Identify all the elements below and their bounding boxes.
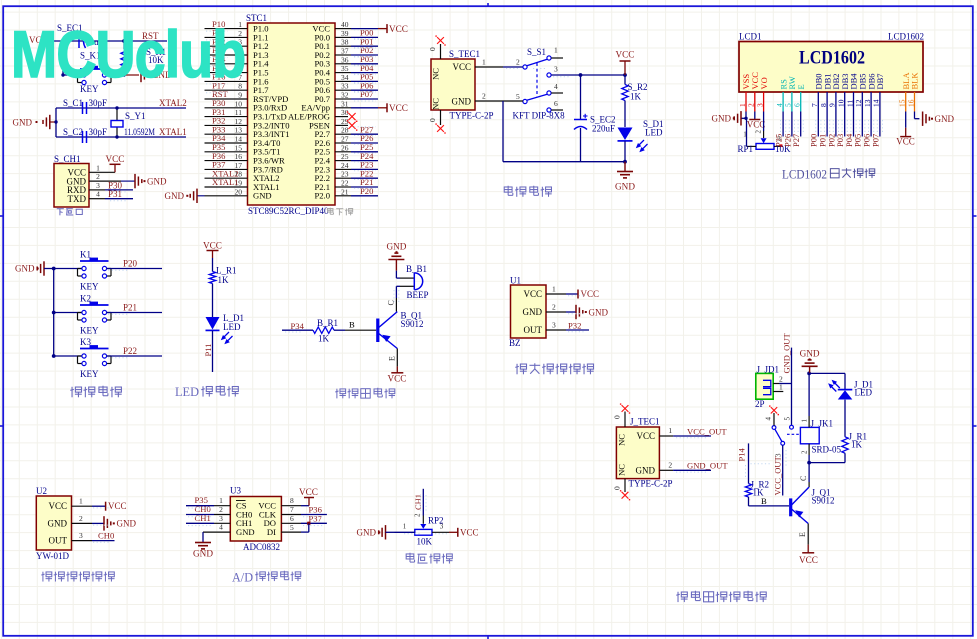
power port VCC (LED) [203,241,222,258]
svg-text:L_R1: L_R1 [216,266,237,276]
pin 1 U2 to VCC [72,497,127,512]
svg-text:GND: GND [386,241,406,251]
svg-text:28: 28 [341,126,349,135]
svg-text:A/D: A/D [232,570,253,585]
connector S_CH1 download port [54,154,89,207]
svg-text:2: 2 [755,130,763,134]
svg-text:1K: 1K [318,334,330,344]
pin 37 STC1 P0.2 [314,45,378,60]
pin 1 U1 to VCC [546,285,599,300]
pin 32 STC1 P0.7 [314,89,378,104]
pin 28 STC1 P2.7 [314,124,378,139]
svg-text:GND: GND [193,549,213,559]
svg-text:2: 2 [414,513,422,517]
pin 11 LCD1 DB4 [845,73,858,112]
wire LCD pin 5 net P26 [782,112,792,148]
svg-text:VCC: VCC [203,241,222,251]
wire LCD pin 6 net P27 [791,112,801,148]
node junction right [122,39,126,43]
pin 33 STC1 P0.6 [314,80,378,95]
svg-text:P20: P20 [360,186,373,196]
svg-text:K1: K1 [80,250,91,260]
svg-text:STC89C52RC_DIP40: STC89C52RC_DIP40 [248,206,329,216]
svg-text:3: 3 [554,65,558,74]
pin 6 STC1 P1.5 [205,63,269,78]
pin 8 U3 to VCC [281,496,309,506]
ground (relay) [800,349,820,374]
wire LCD pin 4 net P25 [774,112,784,148]
svg-text:3: 3 [552,321,556,330]
wire relay to collector [799,463,809,487]
svg-text:5: 5 [290,523,294,532]
svg-text:0: 0 [613,415,622,419]
ground (reset) [124,66,172,82]
title LED circuit [175,384,239,399]
power port VCC (pin 31 EA/Vpp) [378,103,408,113]
svg-text:30pF: 30pF [89,98,108,108]
pin 10 LCD1 DB3 [837,73,850,111]
ground (keys) [15,261,54,275]
svg-text:1K: 1K [851,440,863,450]
pin 11 STC1 P3.1/TxD [205,107,287,122]
svg-text:33: 33 [341,82,349,91]
wire emitter to VCC (relay) [798,524,808,545]
pin 13 LCD1 DB6 [863,73,876,111]
pin 23 STC1 P2.2 [314,168,378,183]
pin 2 J_JD1 wire to GND_OUT [773,374,791,383]
svg-text:2: 2 [552,303,556,312]
svg-text:TYPE-C-2P: TYPE-C-2P [629,479,673,489]
pin 0 J_TEC1 bottom no-connect [613,479,631,501]
svg-text:VCC: VCC [460,527,479,537]
no connect pin 30 [347,111,358,122]
svg-text:CH1: CH1 [195,513,211,523]
svg-text:B_R1: B_R1 [317,318,338,328]
svg-text:KEY: KEY [80,326,99,336]
ground (pin 20) [165,189,205,203]
label MCU chinese [328,208,353,216]
wire XTAL2 [56,107,186,109]
title LCD display module [782,168,875,182]
svg-text:10: 10 [837,99,846,107]
svg-text:S_Y1: S_Y1 [125,111,146,121]
pin 16 LCD1 BLK [906,72,919,112]
wire buzzer top [396,271,400,278]
title relay control circuit [676,591,766,602]
svg-text:22: 22 [341,179,349,188]
pin 2 LCD1 VCC [747,72,760,112]
pin 5 STC1 P1.4 [205,54,270,69]
IC U1 infrared module [509,276,546,349]
svg-text:GND_OUT: GND_OUT [687,461,728,471]
svg-text:3: 3 [440,523,444,531]
svg-text:XTAL1: XTAL1 [212,177,239,187]
svg-text:ADC0832: ADC0832 [243,542,280,552]
pin 9 LCD1 DB2 [828,73,841,111]
svg-text:27: 27 [341,135,349,144]
net label P34 [291,321,305,331]
ground (LCD right) [923,112,955,126]
svg-text:BEEP: BEEP [407,290,429,300]
svg-text:1: 1 [801,419,809,423]
svg-text:P11: P11 [203,344,213,357]
svg-text:3: 3 [79,531,83,540]
pin 1 J_JD1 stub [773,383,783,392]
IC U-STC1 STC89C52RC_DIP40 [246,13,335,205]
power port VCC (relay driver) [799,545,818,565]
title AD converter circuit [232,570,301,585]
capacitor S_EC1 10uF [57,23,104,48]
svg-text:GND: GND [236,527,255,537]
svg-text:2: 2 [79,514,83,523]
svg-text:26: 26 [341,143,349,152]
pin 31 STC1 EA/Vpp [301,99,378,112]
title key circuit [70,386,121,398]
svg-text:220uF: 220uF [592,124,615,134]
svg-text:B: B [761,496,767,506]
pin 20 STC1 GND [205,187,272,200]
svg-text:VCC: VCC [389,103,408,113]
pin 4 S_CH1 net P31 [89,189,133,199]
svg-text:9: 9 [238,91,242,100]
svg-text:GND: GND [48,518,68,528]
key K3 [52,337,111,379]
pin 15 STC1 P3.5/T1 [205,142,281,157]
svg-text:LCD1602: LCD1602 [782,168,827,182]
svg-text:KEY: KEY [80,369,99,379]
svg-text:VCC_OUT: VCC_OUT [687,426,727,436]
svg-text:GND: GND [15,264,35,274]
svg-text:7: 7 [290,505,294,514]
wire base [282,329,313,331]
pin 1 LCD1 VSS [738,74,751,112]
wire VCC to RST [47,40,168,42]
svg-text:P32: P32 [568,321,581,331]
pin 1 S_CH1 to VCC [89,154,124,173]
svg-text:SRD-05: SRD-05 [812,444,842,454]
svg-text:P34: P34 [291,321,305,331]
svg-text:VCC: VCC [452,62,471,72]
svg-text:20: 20 [235,187,243,196]
svg-text:GND: GND [636,466,656,476]
svg-text:LCD1602: LCD1602 [799,48,865,69]
svg-text:GND: GND [712,114,732,124]
svg-text:NC: NC [617,434,627,446]
wire LCD pin 13 net P06 [862,112,872,148]
svg-text:CH0: CH0 [98,531,114,541]
svg-text:VCC: VCC [616,50,635,60]
pin 24 STC1 P2.3 [314,160,378,175]
svg-text:34: 34 [341,73,349,82]
svg-text:11: 11 [845,100,854,107]
IC U2 YW-01D liquid level module [36,486,72,561]
svg-text:1K: 1K [630,92,642,102]
svg-text:P07: P07 [870,134,880,147]
svg-text:36: 36 [341,55,349,64]
connector J_TEC1 TYPE-C-2P [616,417,672,489]
resistor J_R2 1K [745,480,769,498]
transistor J_Q1 S9012 [791,487,835,524]
connector S_TEC1 TYPE-C-2P [431,49,494,121]
svg-text:OUT: OUT [524,325,543,335]
svg-text:U2: U2 [36,486,47,496]
svg-text:CH1: CH1 [413,494,423,510]
pin 17 STC1 P3.7/RD [205,160,283,175]
svg-text:1K: 1K [218,275,230,285]
LED L_D1 [206,284,245,345]
svg-text:P2.0: P2.0 [314,191,330,201]
pin 3 S_CH1 net P30 [89,180,133,190]
svg-text:VCC: VCC [747,120,766,130]
svg-text:E: E [388,356,397,361]
svg-text:GND: GND [13,118,33,128]
svg-text:P27: P27 [791,134,801,147]
pin 25 STC1 P2.4 [314,151,378,166]
pin 0 J_TEC1 top no-connect [613,403,631,427]
svg-text:GND: GND [117,519,137,529]
svg-text:1: 1 [96,163,100,172]
svg-text:U1: U1 [510,276,521,286]
svg-text:0: 0 [428,118,437,122]
pin 3 U2 net CH0 [72,531,115,541]
pin 18 STC1 XTAL2 [205,168,280,183]
pin 29 STC1 PSEN [309,117,349,130]
wire LCD pin 7 net P00 [809,112,819,148]
svg-text:P14: P14 [736,448,746,462]
pin 12 STC1 P3.2/INT0 [205,116,290,131]
svg-text:1: 1 [668,426,672,435]
pin 7 STC1 P1.6 [205,72,270,87]
svg-text:LED: LED [223,322,241,332]
svg-text:3: 3 [96,181,100,190]
svg-text:GND: GND [147,177,167,187]
power port VCC (pin 40) [378,24,408,34]
resistor B_R1 1K [313,318,338,344]
pin 26 STC1 P2.5 [314,142,378,157]
wire LCD pin 9 net P02 [826,112,836,148]
pin 40 STC1 VCC [312,20,378,33]
wire LCD pin 12 net P05 [853,112,863,148]
svg-text:2: 2 [668,460,672,469]
ground (voltage detect) [357,525,415,539]
svg-text:U3: U3 [230,486,241,496]
svg-text:2: 2 [801,450,809,454]
svg-text:VCC: VCC [299,487,318,497]
svg-text:2: 2 [482,92,486,101]
svg-text:0: 0 [613,486,622,490]
svg-text:21: 21 [341,187,349,196]
key K1 [52,250,111,292]
svg-text:12: 12 [854,99,863,107]
pin 1 S_TEC1 VCC wire to switch [475,58,523,68]
svg-text:35: 35 [341,64,349,73]
svg-text:4: 4 [219,523,223,532]
svg-text:MCUclub: MCUclub [11,17,245,91]
svg-text:5: 5 [784,103,793,107]
potentiometer RP2 10K [403,516,444,547]
pin 1 U3 net P35 [186,495,230,506]
IC LCD1 LCD1602 [739,32,924,93]
net label XTAL1 [159,127,187,137]
wire crystal left leg [55,108,57,137]
svg-text:LED: LED [855,388,873,398]
pin 6 LCD1 E [793,84,806,111]
svg-text:1: 1 [552,285,556,294]
svg-text:11.0592M: 11.0592M [124,127,155,137]
wire net GND_OUT vertical [781,333,791,426]
svg-text:40: 40 [341,20,349,29]
svg-text:1: 1 [554,46,558,55]
ground (ADC) [193,543,213,559]
svg-text:5: 5 [784,417,792,421]
svg-text:10K: 10K [417,537,433,547]
key K2 [52,294,111,336]
svg-text:4: 4 [775,103,784,107]
svg-text:GND: GND [589,307,609,317]
svg-text:KFT DIP-8X8: KFT DIP-8X8 [513,111,566,121]
svg-text:VCC: VCC [896,137,915,147]
svg-text:3: 3 [219,514,223,523]
pin 2 U3 net CH0 [186,504,230,515]
svg-text:TXD: TXD [68,194,87,204]
wire net P21 [107,303,162,313]
pin 4 LCD1 RS [775,79,788,112]
label download port [57,209,83,216]
svg-text:14: 14 [235,135,243,144]
wire switch out to VCC rail [551,73,627,77]
ground (crystal) [13,115,58,129]
pin 34 STC1 P0.5 [314,72,378,87]
svg-text:S_C1: S_C1 [63,98,83,108]
svg-text:1: 1 [79,497,83,506]
pin 1 STC1 P1.0 [205,19,269,34]
svg-text:VCC: VCC [799,555,818,565]
svg-text:6: 6 [554,99,558,108]
pin 8 STC1 P1.7 [205,80,270,95]
svg-text:E: E [798,532,807,537]
pin 38 STC1 P0.1 [314,36,378,51]
svg-text:GND: GND [523,307,543,317]
svg-text:1: 1 [403,523,407,531]
pin 2 U2 to GND [72,514,137,531]
svg-text:38: 38 [341,38,349,47]
svg-text:LCD1602: LCD1602 [888,32,924,42]
svg-text:S_S1: S_S1 [527,47,546,57]
svg-text:31: 31 [341,99,349,108]
svg-text:S9012: S9012 [812,496,835,506]
svg-text:GND: GND [615,182,635,192]
svg-text:16: 16 [235,152,243,161]
wire base (relay transistor) [749,496,790,506]
svg-text:VCC_OUT: VCC_OUT [773,455,783,495]
svg-text:VCC: VCC [523,289,542,299]
switch S_S1 KFT DIP-8X8 [513,46,566,121]
svg-text:NC: NC [431,98,441,110]
svg-text:VCC: VCC [581,289,600,299]
wire resistor to base [334,320,376,331]
title buzzer circuit [335,388,395,399]
svg-text:4: 4 [554,82,558,91]
svg-text:LED: LED [175,384,199,399]
pin 21 STC1 P2.0 [314,186,378,201]
svg-text:VCC: VCC [636,431,655,441]
potentiometer RP1 10K [738,118,792,154]
pin 5 U3 DI tie to DO [281,523,308,532]
capacitor S_EC2 220uF [574,75,616,162]
pin 2 U1 to GND [546,303,608,320]
svg-text:25: 25 [341,152,349,161]
pin 1 J_TEC1 net VCC_OUT [659,426,727,436]
pin 7 LCD1 DB0 [810,73,823,111]
wire net P22 [107,346,162,356]
net label XTAL2 [159,98,187,108]
svg-text:P22: P22 [123,346,137,356]
key S_K1 push button [61,41,125,94]
net label P14 [736,448,746,462]
wire relay top rail [809,372,845,374]
svg-text:C: C [799,476,808,481]
pin 3 U3 net CH1 [186,513,230,524]
svg-text:KEY: KEY [80,282,99,292]
svg-text:2: 2 [219,505,223,514]
svg-text:1: 1 [743,131,747,139]
svg-text:32: 32 [341,91,349,100]
capacitor S_C2 30pF [63,127,107,143]
wire emitter to VCC [388,349,398,367]
wire LCD BLA to VCC [905,112,907,128]
svg-text:23: 23 [341,170,349,179]
svg-text:1: 1 [779,383,783,392]
pin 16 STC1 P3.6/WR [205,151,286,166]
svg-text:2: 2 [747,103,756,107]
svg-text:15: 15 [898,99,907,107]
svg-text:P31: P31 [108,189,122,199]
power port VCC (supply) [616,50,635,76]
svg-text:P20: P20 [123,259,138,269]
pin 3 LCD1 VO [755,77,768,111]
buzzer B_B1 BEEP [400,264,429,300]
title infrared module [515,363,594,374]
pin 3 U1 net P32 [546,321,589,331]
pin 7 U3 net P36 [281,505,327,515]
svg-text:GND: GND [452,97,472,107]
pin 0 S_TEC1 bottom no-connect [428,110,446,134]
ground (buzzer) [386,241,406,270]
resistor S_R1 10K [121,47,166,66]
svg-text:VCC: VCC [48,501,67,511]
svg-text:0: 0 [428,47,437,51]
pin 14 STC1 P3.4/T0 [205,133,281,148]
wire LCD VO to potentiometer wiper [763,112,765,139]
pin 22 STC1 P2.1 [314,177,378,192]
svg-text:YW-01D: YW-01D [36,551,69,561]
svg-text:GND: GND [253,191,272,201]
svg-text:37: 37 [341,47,349,56]
svg-text:14: 14 [872,99,881,107]
svg-text:XTAL1: XTAL1 [159,127,187,137]
pin 10 STC1 P3.0/RxD [205,98,288,113]
LED S_D1 [618,119,664,164]
relay switch arm [775,429,801,445]
pin 5 LCD1 RW [784,76,797,111]
pin 9 STC1 RST/VPD [205,89,289,104]
svg-text:GND: GND [357,528,377,538]
svg-text:7: 7 [810,103,819,107]
power port VCC (LCD pin2) [747,112,766,130]
capacitor S_C1 30pF [63,98,107,114]
wire P14 to resistor [748,443,750,483]
svg-text:1: 1 [482,58,486,67]
